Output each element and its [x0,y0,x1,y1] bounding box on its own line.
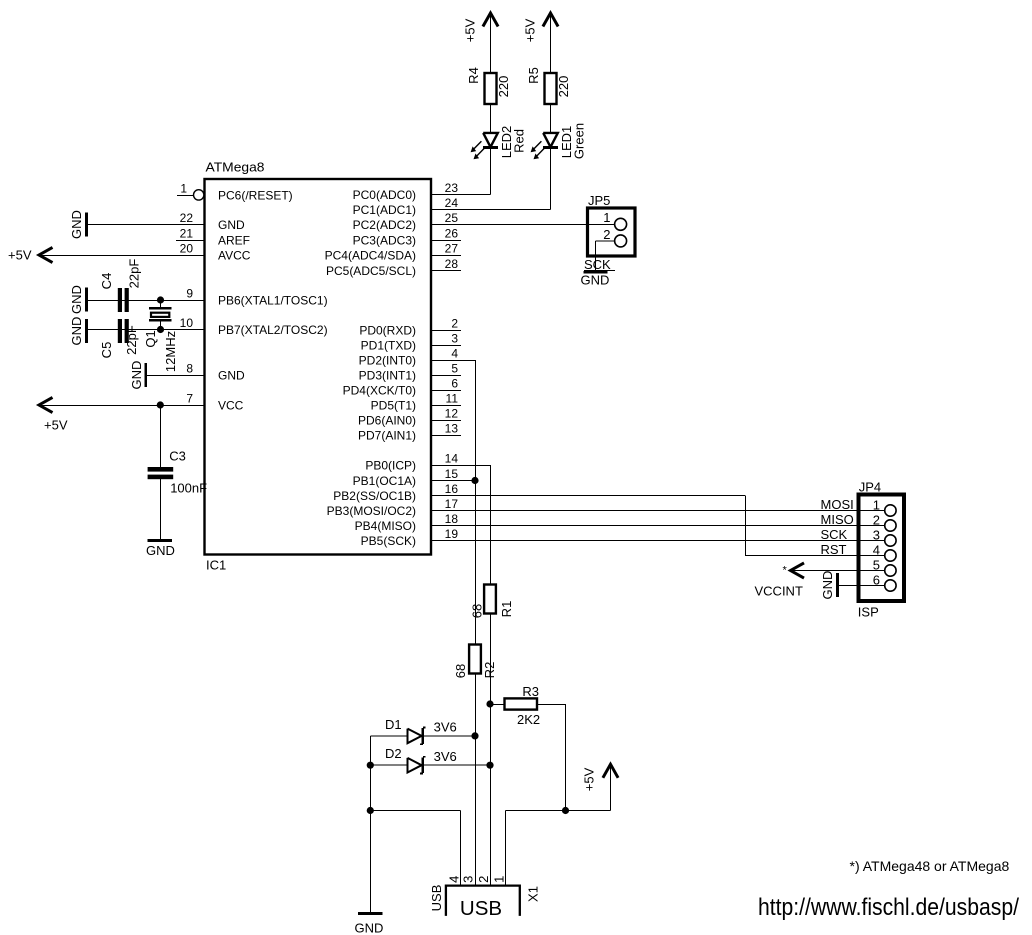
IC1 pin 1 inversion circle [194,190,204,200]
svg-text:GND: GND [820,571,835,600]
IC1 pin 15 stub [431,480,461,482]
JP5 pin 1 circle [615,218,627,230]
svg-text:2: 2 [603,227,610,242]
svg-text:26: 26 [445,226,459,240]
IC1 pin 2 stub [431,330,461,332]
svg-text:12MHz: 12MHz [163,331,178,372]
resistor R4 body [485,73,497,104]
svg-text:24: 24 [445,196,459,210]
svg-text:2: 2 [476,876,491,883]
svg-text:PD0(RXD): PD0(RXD) [359,323,416,337]
wire R1 to USB pin 2 [490,614,492,886]
svg-text:C4: C4 [99,273,114,290]
svg-text:PC1(ADC1): PC1(ADC1) [353,203,416,217]
svg-text:25: 25 [445,211,459,225]
svg-text:C3: C3 [169,449,186,464]
IC1 pin 20 stub [176,255,205,257]
JP4 pin 1 circle [885,505,896,516]
svg-text:ISP: ISP [858,604,879,619]
node junction +5V net [562,807,569,814]
IC1 pin 3 stub [431,345,461,347]
wire pin16 to RST net [431,495,745,497]
svg-text:68: 68 [470,604,485,618]
svg-text:*: * [783,565,788,577]
svg-text:PD6(AIN0): PD6(AIN0) [358,413,416,427]
+5V arrow at USB [603,764,618,778]
svg-text:USB: USB [460,897,502,920]
svg-text:2: 2 [873,513,880,528]
wire pin17 MOSI to JP4 [431,510,885,512]
IC1 pin 25 stub [431,224,461,226]
node junction D2 anode [367,762,374,769]
wire JP4 pin 6 to ground [837,585,885,587]
svg-text:17: 17 [445,497,459,511]
svg-text:3: 3 [873,528,880,543]
IC1 pin 12 stub [431,420,461,422]
svg-text:+5V: +5V [463,18,478,42]
svg-text:http://www.fischl.de/usbasp/: http://www.fischl.de/usbasp/ [758,894,1019,921]
wire R4 to LED2 [490,104,492,133]
JP4 pin 6 circle [885,580,896,591]
svg-text:SCK: SCK [821,527,848,542]
svg-text:PB3(MOSI/OC2): PB3(MOSI/OC2) [327,504,416,518]
wire VCC node down to C3 [159,405,161,467]
svg-text:27: 27 [445,241,459,255]
wire JP5 pin 2 to SCK/GND [596,240,615,242]
svg-text:D1: D1 [385,717,402,732]
wire pin19 SCK to JP4 [431,540,885,542]
svg-text:7: 7 [186,391,193,405]
svg-text:JP4: JP4 [859,479,881,494]
IC1 pin 9 stub [176,300,205,302]
svg-text:GND: GND [218,368,245,382]
svg-text:4: 4 [873,543,880,558]
wire D2 cathode [423,764,490,766]
IC1 pin 10 stub [176,329,205,331]
LED LED1 triangle [543,133,558,147]
crystal Q1 wire from pin9 node [160,300,162,308]
svg-text:PB5(SCK): PB5(SCK) [361,534,416,548]
svg-text:23: 23 [445,181,459,195]
ground symbol at JP4 pin 6 [836,573,839,597]
svg-text:GND: GND [355,920,384,935]
svg-text:220: 220 [556,76,571,98]
capacitor C4 plates [118,288,122,312]
node XTAL2 junction [157,326,164,333]
wire VCCINT to JP4 pin 5 [791,570,885,572]
capacitor C5 plates [118,319,122,343]
svg-text:10: 10 [180,316,194,330]
svg-text:PB1(OC1A): PB1(OC1A) [353,474,416,488]
node junction D1 [471,732,478,739]
svg-text:GND: GND [581,273,610,288]
svg-text:PC3(ADC3): PC3(ADC3) [353,233,416,247]
svg-text:6: 6 [451,376,458,390]
IC1 pin 6 stub [431,390,461,392]
wire pin7 VCC to +5V [39,405,205,407]
node junction D2 [486,762,493,769]
+5V arrow above R4 [483,13,498,27]
svg-text:20: 20 [180,241,194,255]
svg-text:GND: GND [69,285,84,314]
connector JP4 frame [859,495,905,602]
LED LED1 emission arrows [531,141,545,159]
svg-text:4: 4 [451,346,458,360]
svg-text:GND: GND [218,218,245,232]
resistor R5 body [545,73,557,104]
wire LED1 to IC pin [550,149,552,210]
svg-text:2: 2 [451,316,458,330]
IC1 pin 19 stub [431,540,461,542]
svg-text:+5V: +5V [582,767,597,791]
ground symbol at C4 [85,288,88,312]
svg-text:X1: X1 [526,886,541,902]
svg-text:GND: GND [129,361,144,390]
svg-text:PB0(ICP): PB0(ICP) [365,458,416,472]
svg-text:16: 16 [445,482,459,496]
JP5 pin 2 circle [615,235,627,247]
svg-text:PD4(XCK/T0): PD4(XCK/T0) [343,383,416,397]
IC1 pin 11 stub [431,405,461,407]
IC1 pin 21 stub [176,240,205,242]
svg-text:22pF: 22pF [127,259,142,289]
wire pin9 XTAL1 net [87,300,205,302]
resistor R2 body [469,645,481,674]
svg-text:VCCINT: VCCINT [755,584,803,599]
svg-text:12: 12 [445,406,459,420]
svg-text:220: 220 [496,76,511,98]
wire zener ground column [369,736,371,913]
wire +5V to R5 [550,13,552,73]
svg-text:3V6: 3V6 [434,720,457,735]
svg-text:R5: R5 [526,67,541,84]
wire pin15 to column A [431,480,475,482]
svg-text:100nF: 100nF [170,481,207,496]
svg-text:PC5(ADC5/SCL): PC5(ADC5/SCL) [326,264,416,278]
ground symbol below JP5 [583,271,607,274]
wire C3 to ground [159,479,161,539]
IC1 pin 4 stub [431,360,461,362]
LED LED1 cathode bar [543,146,558,149]
svg-text:PD3(INT1): PD3(INT1) [359,368,416,382]
svg-text:PB6(XTAL1/TOSC1): PB6(XTAL1/TOSC1) [218,293,328,307]
svg-text:USB: USB [429,885,444,912]
ground symbol at pin 8 [144,363,147,387]
svg-text:VCC: VCC [218,398,244,412]
IC1 pin 7 stub [176,405,205,407]
node XTAL1 junction [157,296,164,303]
connector X1 USB frame (open bottom) [446,886,520,916]
LED LED2 emission arrows [471,141,485,159]
IC1 pin 27 stub [431,255,461,257]
resistor R1 body [484,585,496,614]
wire pin20 AVCC to +5V [39,255,205,257]
ground symbol bottom left [358,912,383,915]
JP4 pin 4 circle [885,550,896,561]
crystal Q1 wire to pin10 node [160,322,162,330]
svg-text:18: 18 [445,512,459,526]
wire +5V to R4 [490,13,492,73]
svg-text:Q1: Q1 [143,330,158,347]
svg-text:R2: R2 [482,662,497,679]
IC1 pin 18 stub [431,525,461,527]
+5V arrow at VCC [39,397,53,412]
svg-text:14: 14 [445,451,459,465]
svg-text:15: 15 [445,467,459,481]
LED LED2 cathode bar [483,146,498,149]
svg-text:22: 22 [180,211,194,225]
svg-text:PB7(XTAL2/TOSC2): PB7(XTAL2/TOSC2) [218,323,328,337]
svg-text:22pF: 22pF [124,325,139,355]
svg-text:PD1(TXD): PD1(TXD) [361,338,416,352]
svg-text:5: 5 [451,361,458,375]
resistor R3 body [505,698,538,709]
node junction R3/column B [486,700,493,707]
svg-text:+5V: +5V [44,418,68,433]
svg-text:68: 68 [453,664,468,678]
svg-text:R4: R4 [466,67,481,84]
wire pin4 INT0 to column A [431,360,475,362]
JP4 pin 5 circle [885,565,896,576]
svg-text:GND: GND [69,317,84,346]
connector JP5 frame [588,208,636,256]
wire pin25 to JP5 pin 1 [431,224,615,226]
wire USB pin 1 to +5V net [505,811,507,886]
svg-text:Red: Red [512,129,527,153]
wire pin18 MISO to JP4 [431,525,885,527]
IC1 pin 24 stub [431,209,461,211]
node VCC junction [157,401,164,408]
svg-text:28: 28 [445,257,459,271]
svg-text:1: 1 [603,210,610,225]
IC1 pin 5 stub [431,375,461,377]
IC1 pin 16 stub [431,495,461,497]
wire up to +5V arrow [610,764,612,810]
wire column B vertical (D-) [490,465,492,585]
svg-text:PD2(INT0): PD2(INT0) [359,353,416,367]
svg-text:3: 3 [451,331,458,345]
svg-text:+5V: +5V [8,248,32,263]
svg-text:21: 21 [180,226,194,240]
svg-text:PC2(ADC2): PC2(ADC2) [353,218,416,232]
IC1 pin 8 stub [176,375,205,377]
wire column A vertical (D+) [475,360,477,645]
IC1 pin 17 stub [431,510,461,512]
svg-text:13: 13 [445,421,459,435]
svg-text:C5: C5 [99,342,114,359]
wire LED2 to IC pin [490,149,492,195]
svg-text:D2: D2 [385,746,402,761]
wire D2 anode [370,764,407,766]
node junction pin15/column A [471,477,478,484]
IC1 pin 13 stub [431,435,461,437]
wire R3 left [490,704,505,706]
svg-text:JP5: JP5 [588,193,610,208]
op-amp-style IC block U/IC1 ATMega8 body [205,179,432,555]
zener diode D2 symbol [408,758,422,773]
wire pin10 XTAL2 net [87,329,205,331]
node junction gnd row [367,807,374,814]
svg-text:8: 8 [186,361,193,375]
svg-text:RST: RST [821,542,847,557]
IC1 pin 23 stub [431,194,461,196]
svg-text:GND: GND [146,543,175,558]
ground symbol at pin 22 [85,213,88,237]
svg-text:3: 3 [460,876,475,883]
svg-text:AREF: AREF [218,233,250,247]
svg-text:ATMega8: ATMega8 [206,160,265,175]
wire R2 to USB pin 3 [475,674,477,886]
IC1 pin 28 stub [431,270,461,272]
wire pin14 to column B [431,465,490,467]
svg-text:2K2: 2K2 [517,712,540,727]
LED LED2 triangle [483,133,498,147]
svg-text:+5V: +5V [523,18,538,42]
svg-text:4: 4 [446,876,461,883]
crystal Q1 symbol [149,307,172,309]
IC1 pin 22 stub [176,224,205,226]
wire ground row to USB pin 4 [370,810,460,812]
svg-text:3V6: 3V6 [434,749,457,764]
capacitor C3 plates [148,467,174,472]
VCCINT supply arrow [791,563,805,578]
wire D1 cathode [423,735,475,737]
ground symbol at C5 [85,319,88,343]
svg-text:GND: GND [69,210,84,239]
svg-text:PD5(T1): PD5(T1) [371,398,416,412]
IC1 pin 1 stub [177,195,194,197]
svg-text:9: 9 [186,286,193,300]
wire pin22 to ground [87,224,205,226]
JP4 pin 3 circle [885,535,896,546]
svg-text:R3: R3 [522,684,539,699]
svg-text:PD7(AIN1): PD7(AIN1) [358,428,416,442]
svg-text:PC6(/RESET): PC6(/RESET) [218,188,293,202]
JP4 pin 2 circle [885,520,896,531]
svg-text:Green: Green [572,123,587,159]
svg-text:19: 19 [445,527,459,541]
svg-text:PC4(ADC4/SDA): PC4(ADC4/SDA) [325,248,416,262]
IC1 pin 26 stub [431,240,461,242]
+5V arrow above R5 [543,13,558,27]
svg-text:1: 1 [873,498,880,513]
wire pin8 to ground [146,375,205,377]
wire R5 to LED1 [550,104,552,133]
svg-text:PB2(SS/OC1B): PB2(SS/OC1B) [333,489,416,503]
ground symbol at C3 [148,539,173,542]
svg-text:MOSI: MOSI [821,497,854,512]
svg-text:PC0(ADC0): PC0(ADC0) [353,188,416,202]
svg-text:MISO: MISO [821,512,854,527]
svg-text:IC1: IC1 [206,558,226,573]
svg-text:1: 1 [491,876,506,883]
zener diode D1 symbol [408,729,422,744]
+5V arrow at AVCC [39,247,53,262]
svg-text:R1: R1 [499,601,514,618]
IC1 pin 14 stub [431,465,461,467]
svg-text:*) ATMega48 or ATMega8: *) ATMega48 or ATMega8 [850,858,1010,874]
svg-text:PB4(MISO): PB4(MISO) [355,519,416,533]
wire D1 anode [370,735,407,737]
svg-text:11: 11 [446,391,459,405]
svg-text:AVCC: AVCC [218,248,251,262]
wire R3 right to +5V net [537,704,566,706]
svg-text:1: 1 [180,181,187,195]
